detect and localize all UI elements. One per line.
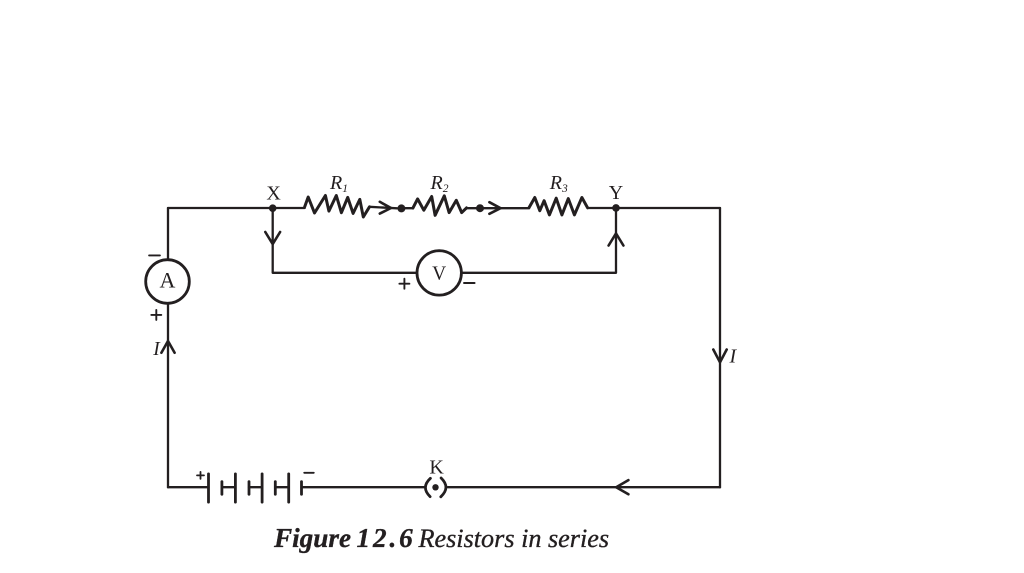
- wire right vertical: [719, 208, 721, 487]
- voltmeter V circle: [417, 251, 461, 295]
- svg-text:R2: R2: [430, 172, 449, 195]
- ammeter A circle: [146, 260, 190, 304]
- key K contact dot: [432, 484, 438, 490]
- svg-text:X: X: [266, 183, 281, 205]
- svg-text:K: K: [429, 457, 444, 479]
- wire node A to R2: [401, 207, 413, 209]
- ammeter minus terminal label: [149, 254, 160, 256]
- node Y junction dot: [612, 204, 620, 212]
- wire bottom left (corner to battery): [168, 486, 208, 488]
- wire left vertical lower (ammeter to bottom corner): [167, 303, 169, 487]
- current arrow between R1 and node A: [380, 202, 391, 214]
- resistor R1: [305, 196, 370, 218]
- current arrow I on right wire (downward): [713, 350, 726, 363]
- ammeter plus terminal label: [151, 310, 161, 320]
- svg-text:Y: Y: [609, 182, 623, 204]
- svg-text:I: I: [728, 346, 737, 368]
- wire key to bottom-right corner: [448, 486, 720, 488]
- current arrow on Y rise (upward): [609, 233, 624, 245]
- battery inter-cell connecting wires: [222, 486, 235, 488]
- wire battery to key: [302, 486, 425, 488]
- wire node Y to top-right corner: [616, 207, 720, 209]
- svg-text:R3: R3: [549, 172, 568, 195]
- key K parentheses: [425, 478, 430, 496]
- wire node B to R3: [480, 207, 529, 209]
- resistor R3: [529, 198, 588, 215]
- current arrow between node B and R3: [489, 202, 500, 214]
- svg-text:V: V: [432, 264, 446, 285]
- wire X drop to voltmeter branch: [273, 208, 417, 273]
- battery minus terminal label: [304, 472, 314, 474]
- current arrow on bottom wire (leftward): [616, 480, 628, 494]
- svg-text:Figure: Figure: [273, 523, 351, 553]
- svg-text:R1: R1: [329, 172, 348, 195]
- svg-text:A: A: [160, 267, 176, 292]
- battery cell plates: [209, 474, 302, 502]
- battery plus terminal label: [197, 472, 204, 479]
- voltmeter minus terminal label: [464, 282, 475, 284]
- svg-text:12.6: 12.6: [357, 523, 416, 553]
- wire R1 to node A: [370, 207, 398, 209]
- svg-text:Resistors in series: Resistors in series: [418, 524, 610, 553]
- wire top-left segment X to left corner: [168, 207, 305, 209]
- node A junction dot (between R1 and R2): [397, 204, 405, 212]
- current arrow I on left wire (upward): [161, 341, 174, 353]
- caption: Figure 12.6 Resistors in series: [273, 523, 609, 553]
- current arrow on X drop (downward): [265, 232, 280, 244]
- node B junction dot (between R2 and R3): [476, 204, 484, 212]
- node X junction dot: [269, 204, 277, 212]
- wire R2 to node B: [467, 207, 481, 209]
- resistor R2: [413, 196, 467, 216]
- voltmeter plus terminal label: [399, 279, 409, 289]
- svg-text:I: I: [152, 339, 161, 360]
- wire left vertical upper (corner to ammeter): [167, 208, 169, 260]
- wire voltmeter to Y rise: [461, 208, 616, 273]
- wire R3 to node Y: [588, 207, 616, 209]
